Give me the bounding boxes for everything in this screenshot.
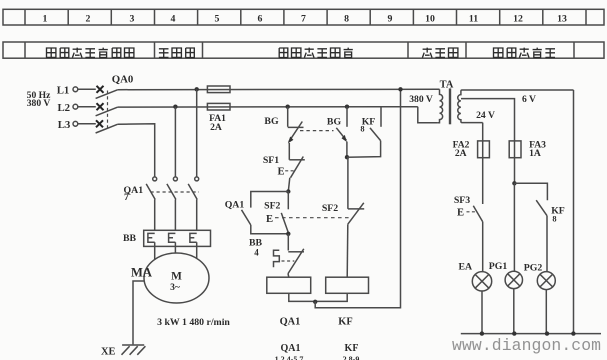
pushbutton SF3 label bbox=[454, 195, 470, 218]
transformer TA primary winding bbox=[437, 89, 442, 122]
overload relay BB heater box bbox=[144, 230, 211, 246]
wire FA3 to lamp PG1 bbox=[513, 183, 515, 271]
node junction self-hold bottom bbox=[286, 232, 290, 236]
supply label 50 Hz / 380 V bbox=[27, 90, 51, 109]
svg-text:PG2: PG2 bbox=[524, 263, 543, 274]
wire PG2 to rail bbox=[545, 290, 547, 334]
function zone strip (second header row) bbox=[3, 42, 604, 58]
pushbutton SF2 station 1 (NO start button) bbox=[281, 192, 288, 233]
fuse FA3 label bbox=[529, 140, 546, 159]
node junction BG2 branch tap bbox=[345, 105, 349, 109]
contact BG 2 (speed relay, with arrow) bbox=[336, 107, 347, 142]
node junction KF lamp branch bbox=[512, 181, 516, 185]
transformer TA core bbox=[449, 88, 451, 124]
pushbutton SF1 (NC stop button) bbox=[285, 157, 305, 178]
contactor QA1 main contact pole 3 bbox=[188, 177, 199, 230]
svg-text:2A: 2A bbox=[455, 148, 467, 159]
contact BG 1 (speed relay, with arrow) bbox=[288, 107, 304, 144]
svg-text:10: 10 bbox=[425, 13, 435, 24]
zone label: 启停控制电路 bbox=[279, 48, 353, 58]
svg-text:13: 13 bbox=[557, 13, 567, 24]
node junction rail PG1 bbox=[512, 331, 516, 335]
contact BB 4 (overload NC) bbox=[274, 249, 305, 274]
node junction rail EA bbox=[480, 331, 484, 335]
wire EA to rail bbox=[481, 291, 483, 334]
svg-text:TA: TA bbox=[440, 79, 454, 90]
svg-text:2 8-9: 2 8-9 bbox=[343, 355, 360, 360]
svg-text:3: 3 bbox=[130, 13, 135, 24]
svg-text:EA: EA bbox=[458, 262, 472, 273]
svg-text:3~: 3~ bbox=[170, 282, 180, 293]
contactor QA1 main contact pole 1 bbox=[146, 177, 157, 230]
fuse FA1 element a bbox=[207, 86, 230, 93]
node junction self-hold top bbox=[286, 189, 290, 193]
svg-text:www.diangon.com: www.diangon.com bbox=[452, 336, 601, 355]
wire L1 bus bbox=[118, 88, 440, 90]
svg-text:SF2: SF2 bbox=[264, 201, 280, 212]
wire FA3 down bbox=[514, 158, 516, 184]
svg-text:1: 1 bbox=[43, 13, 48, 24]
svg-text:380 V: 380 V bbox=[27, 98, 51, 109]
svg-text:QA1: QA1 bbox=[225, 200, 245, 211]
svg-text:6: 6 bbox=[258, 13, 263, 24]
wire 6V down line bbox=[573, 90, 575, 334]
svg-text:XE: XE bbox=[101, 347, 116, 358]
svg-text:8: 8 bbox=[344, 13, 349, 24]
svg-text:SF2: SF2 bbox=[322, 203, 338, 214]
contact KF 8 lamp label bbox=[551, 206, 565, 224]
wire L2 drop bbox=[174, 107, 176, 177]
wire branch to KF lamp contact bbox=[514, 183, 547, 200]
node junction L2-drop bbox=[173, 105, 177, 109]
svg-text:8: 8 bbox=[360, 125, 364, 134]
switch QA0 pole 3 (L3) bbox=[96, 120, 118, 133]
wire control return to L1 bbox=[315, 89, 400, 307]
zone label: 电源开关及保护 bbox=[47, 48, 134, 58]
wire L3 to drop bbox=[118, 124, 155, 177]
motor MA circle bbox=[144, 253, 209, 303]
wire secondary bottom to FA2 bbox=[482, 123, 484, 141]
switch QA0 pole 2 (L2) bbox=[96, 103, 118, 116]
svg-text:SF3: SF3 bbox=[454, 195, 470, 206]
zone label: 主电机 bbox=[159, 48, 194, 58]
wire PG1 to rail bbox=[513, 289, 515, 334]
switch QA0 linkage (dashed) bbox=[107, 91, 109, 130]
svg-text:L1: L1 bbox=[57, 85, 70, 97]
node junction control return bbox=[313, 300, 317, 304]
wire node to BB contact bbox=[287, 234, 289, 251]
fuse FA1 value label bbox=[209, 113, 226, 133]
svg-text:11: 11 bbox=[469, 13, 478, 24]
wire SF1 to node bbox=[288, 178, 290, 192]
contact QA1 auxiliary (self hold) bbox=[242, 192, 289, 234]
wire coil bottoms bbox=[289, 293, 347, 301]
switch QA0 pole 1 (L1) bbox=[96, 86, 118, 99]
terminal L1 bbox=[73, 87, 96, 92]
wire L2 step to transformer primary bbox=[418, 107, 438, 123]
lamp PG1 bbox=[505, 271, 522, 288]
wire BG2 to node bbox=[346, 142, 348, 158]
wire motor frame to earth bbox=[133, 281, 145, 344]
contact KF 8 control label bbox=[360, 116, 375, 133]
wire L2 bus bbox=[118, 106, 418, 108]
wire BB to motor bbox=[155, 242, 197, 259]
svg-text:PG1: PG1 bbox=[489, 261, 508, 272]
linkage SF2 (dashed actuator line) bbox=[275, 217, 352, 219]
svg-text:6 V: 6 V bbox=[522, 94, 536, 105]
wire FA2 to SF3 bbox=[482, 158, 484, 204]
node junction BG branch tap bbox=[286, 105, 290, 109]
svg-text:24 V: 24 V bbox=[476, 110, 495, 121]
svg-text:7: 7 bbox=[124, 192, 129, 203]
pushbutton SF2 station 1 label bbox=[264, 201, 280, 225]
wire SF3 to lamp EA bbox=[482, 222, 484, 272]
svg-text:3 kW 1 480 r/min: 3 kW 1 480 r/min bbox=[157, 317, 230, 328]
node junction rail PG2 bbox=[545, 331, 549, 335]
svg-text:4: 4 bbox=[171, 13, 176, 24]
column numbers 1..13 bbox=[43, 13, 567, 24]
zone label: 照明及信号 bbox=[494, 48, 556, 58]
svg-text:BG: BG bbox=[264, 116, 279, 127]
overload relay BB heater element 2 bbox=[169, 233, 176, 242]
svg-text:E: E bbox=[266, 214, 273, 225]
pushbutton SF3 (NO) bbox=[467, 206, 483, 222]
lamp EA bbox=[472, 272, 491, 291]
fuse FA1 element b bbox=[207, 103, 230, 110]
wire BG1 to SF1 bbox=[288, 143, 290, 160]
linkage BG1-BG2 (dashed) bbox=[300, 130, 334, 132]
node junction control return top bbox=[398, 87, 402, 91]
ground XE (frame earth) bbox=[122, 345, 146, 355]
svg-text:9: 9 bbox=[388, 13, 393, 24]
contact KF 8 (control, NO) bbox=[347, 107, 381, 158]
wire KF contact to lamp PG2 bbox=[546, 216, 548, 272]
svg-text:MA: MA bbox=[131, 266, 152, 280]
svg-text:2: 2 bbox=[86, 13, 91, 24]
svg-text:380 V: 380 V bbox=[409, 94, 433, 105]
svg-text:QA1: QA1 bbox=[280, 317, 301, 328]
contact BB 4 label bbox=[249, 237, 263, 257]
svg-text:QA0: QA0 bbox=[112, 73, 134, 85]
coil KF bbox=[326, 277, 369, 293]
wire signal return rail bbox=[461, 333, 601, 335]
node junction L1-drop bbox=[195, 87, 199, 91]
svg-text:L3: L3 bbox=[58, 119, 71, 131]
svg-text:QA1: QA1 bbox=[281, 343, 301, 354]
terminal L2 bbox=[73, 104, 96, 109]
transformer TA secondary winding bbox=[458, 90, 574, 123]
svg-text:E: E bbox=[277, 167, 284, 178]
svg-text:1 2 4-5 7: 1 2 4-5 7 bbox=[275, 355, 304, 360]
svg-text:7: 7 bbox=[301, 13, 306, 24]
contactor QA1 main label bbox=[124, 185, 144, 203]
svg-text:SF1: SF1 bbox=[263, 155, 279, 166]
contact KF 8 (lamp branch, NO) bbox=[536, 200, 547, 216]
svg-text:KF: KF bbox=[345, 343, 359, 354]
contactor QA1 main contact pole 2 bbox=[167, 177, 178, 230]
svg-text:4: 4 bbox=[254, 248, 259, 258]
motor M 3~ label bbox=[170, 271, 182, 294]
node junction KF branch bbox=[345, 155, 349, 159]
overload relay BB heater element 3 bbox=[190, 233, 197, 242]
wire BB4 to coil QA1 bbox=[287, 274, 290, 278]
pushbutton SF1 label bbox=[263, 155, 285, 178]
svg-text:M: M bbox=[171, 271, 182, 283]
zone label: 变压器 bbox=[422, 48, 458, 58]
wire L1 drop bbox=[196, 89, 198, 177]
svg-text:5: 5 bbox=[215, 13, 220, 24]
terminal L3 bbox=[73, 121, 96, 126]
fuse FA2 label bbox=[453, 140, 470, 159]
reference grid strip (top row of column numbers 1-13) bbox=[3, 9, 604, 25]
fuse FA2 bbox=[478, 141, 490, 158]
svg-text:BB: BB bbox=[123, 233, 137, 244]
pushbutton SF2 station 2 (NC linked contact) bbox=[347, 157, 364, 277]
svg-text:1A: 1A bbox=[529, 148, 541, 159]
wire secondary tap to FA3 bbox=[461, 99, 515, 141]
svg-text:2A: 2A bbox=[210, 122, 222, 133]
svg-text:8: 8 bbox=[552, 214, 556, 223]
coil QA1 bbox=[267, 277, 311, 293]
contactor QA1 main linkage (dashed) bbox=[151, 191, 200, 193]
node junction rail 6V bbox=[571, 331, 575, 335]
svg-text:KF: KF bbox=[338, 317, 352, 328]
lamp PG2 bbox=[537, 272, 555, 290]
svg-text:12: 12 bbox=[513, 13, 523, 24]
svg-text:E: E bbox=[457, 207, 464, 218]
fuse FA3 bbox=[509, 141, 521, 158]
overload relay BB heater element 1 bbox=[148, 233, 155, 242]
svg-text:BG: BG bbox=[327, 116, 342, 127]
svg-text:L2: L2 bbox=[57, 102, 70, 114]
